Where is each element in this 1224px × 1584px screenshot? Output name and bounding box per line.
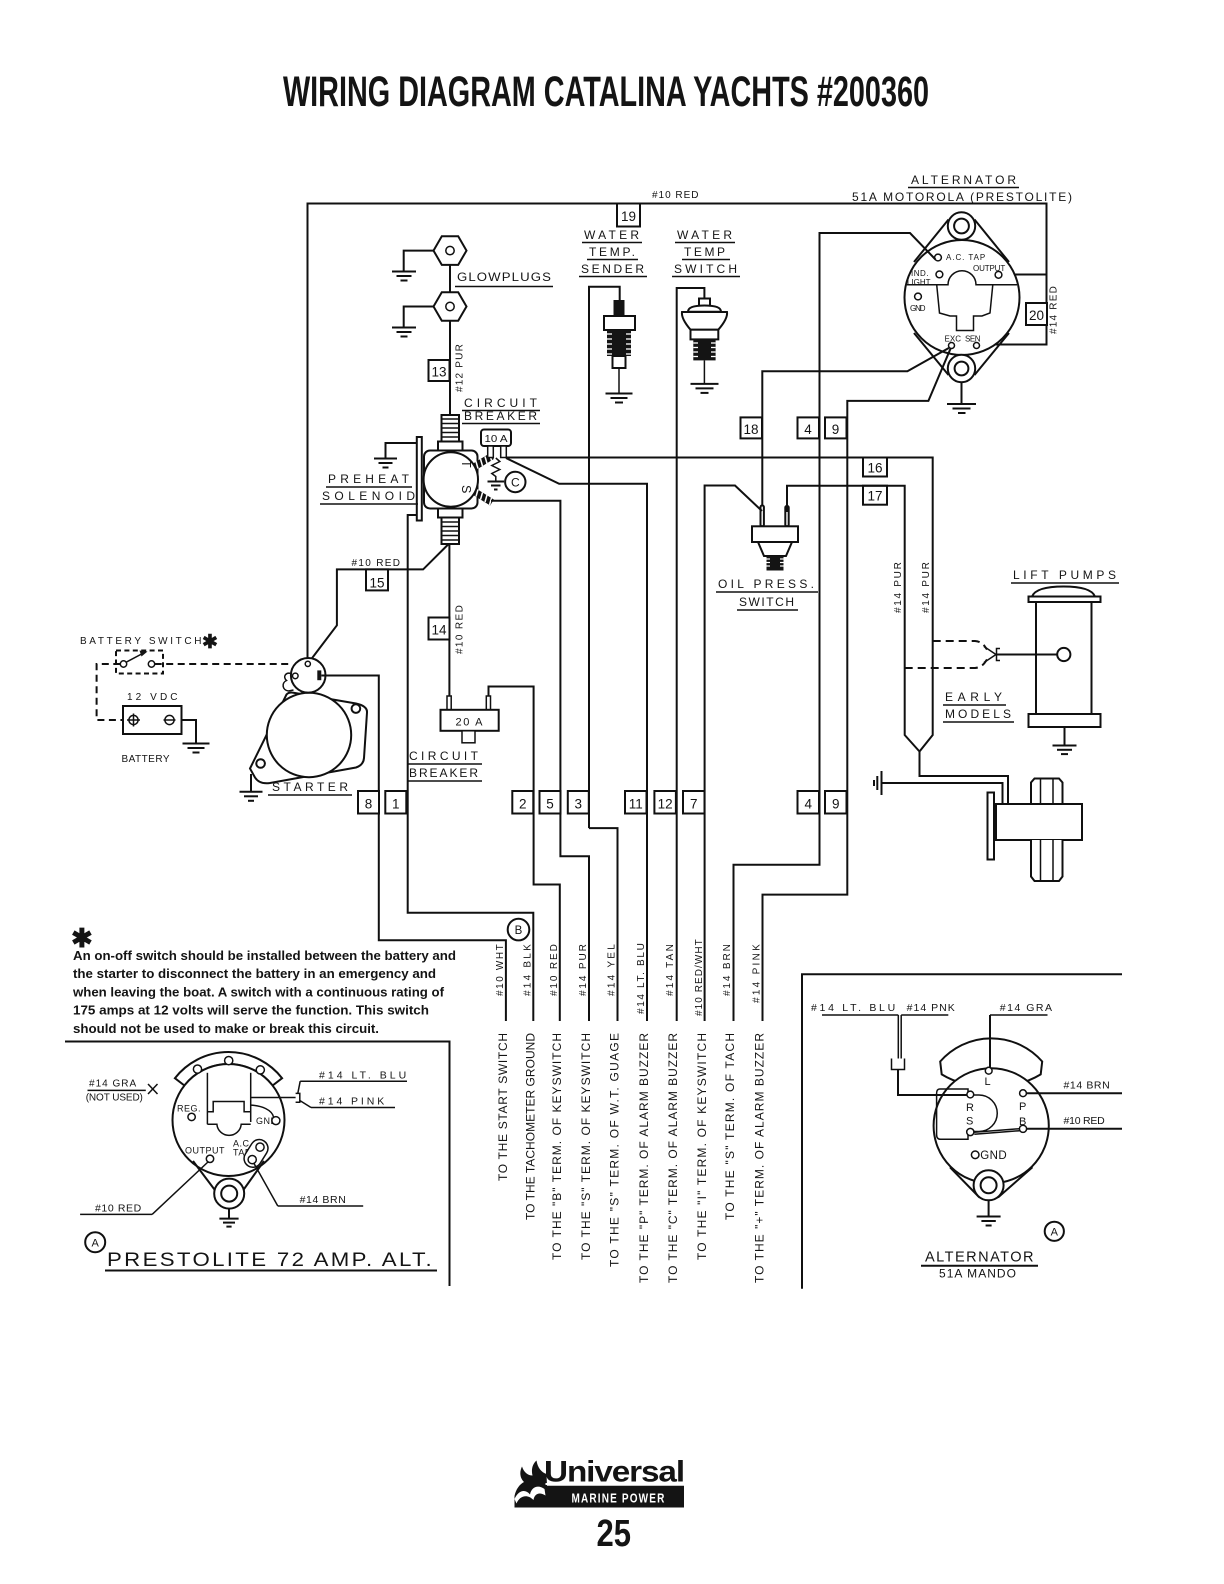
node 19	[617, 204, 640, 227]
svg-text:#14 BLK: #14 BLK	[523, 943, 534, 996]
node 8	[358, 791, 379, 814]
wire GP2 to ground	[404, 307, 434, 328]
X not used mark	[148, 1084, 158, 1094]
node 7	[683, 791, 705, 814]
svg-text:9: 9	[832, 422, 840, 437]
svg-text:#14 GRA: #14 GRA	[89, 1079, 137, 1090]
glowplug GP2	[434, 292, 467, 321]
wire bracket to PINK	[300, 1101, 311, 1108]
label ALTERNATOR (Motorola)	[908, 173, 1019, 188]
wire oil press right pin #14 PUR 17	[787, 486, 920, 752]
wire ground to fuel pump	[882, 783, 1003, 804]
svg-text:#10 RED: #10 RED	[1064, 1115, 1106, 1127]
svg-text:4: 4	[805, 797, 813, 812]
note text	[72, 948, 456, 1036]
svg-text:SWITCH: SWITCH	[739, 595, 795, 609]
water temp sender B2	[604, 300, 635, 394]
node 1	[385, 791, 406, 814]
svg-text:#10 RED: #10 RED	[549, 943, 560, 996]
svg-text:12 VDC: 12 VDC	[127, 692, 179, 703]
svg-text:TO THE "P" TERM. OF ALARM BUZZ: TO THE "P" TERM. OF ALARM BUZZER	[637, 1032, 651, 1283]
connector plug	[892, 1059, 905, 1070]
mando detail frame	[802, 974, 1122, 1289]
terminal S	[967, 1128, 974, 1135]
svg-text:A: A	[92, 1238, 100, 1250]
svg-text:#14 BRN: #14 BRN	[1064, 1080, 1111, 1092]
node B	[508, 919, 530, 941]
svg-text:#10 RED: #10 RED	[352, 558, 402, 569]
svg-text:LIGHT: LIGHT	[907, 278, 931, 287]
svg-text:TO THE "B" TERM. OF KEYSWITCH: TO THE "B" TERM. OF KEYSWITCH	[550, 1032, 564, 1260]
svg-text:#14 PUR: #14 PUR	[578, 943, 589, 996]
svg-text:9: 9	[832, 797, 840, 812]
svg-text:15: 15	[369, 576, 384, 591]
wire #10 RED top bus from battery frame to alternator output	[308, 204, 1047, 664]
label GLOWPLUGS	[455, 270, 553, 287]
alternator A (Prestolite 72A) body	[173, 1052, 285, 1176]
oil pressure switch S3	[752, 506, 798, 571]
wire early models dashed upper	[933, 641, 987, 650]
svg-text:#14 BRN: #14 BRN	[722, 943, 733, 996]
svg-text:TO THE "S" TERM. OF W.T. GUAGE: TO THE "S" TERM. OF W.T. GUAGE	[608, 1032, 622, 1267]
ground at GP2	[392, 328, 416, 337]
svg-text:2: 2	[519, 797, 527, 812]
label EARLY MODELS	[943, 690, 1014, 722]
svg-text:12: 12	[658, 797, 673, 812]
wire output stub	[1002, 274, 1047, 276]
svg-text:OIL PRESS.: OIL PRESS.	[718, 577, 815, 591]
label ALTERNATOR (mando)	[921, 1249, 1038, 1266]
label CIRCUIT BREAKER (10A)	[462, 396, 540, 424]
ground at K1 bracket	[386, 443, 417, 459]
svg-text:4: 4	[804, 422, 812, 437]
ground at R1	[488, 482, 505, 490]
svg-text:8: 8	[365, 797, 373, 812]
node 9 (bottom)	[825, 791, 847, 814]
label #14 GRA (mando)	[990, 1002, 1053, 1015]
circuit breaker CB1 10A	[481, 430, 511, 458]
svg-text:175 amps at 12 volts will serv: 175 amps at 12 volts will serve the func…	[73, 1003, 429, 1018]
wire #10 RED to output	[152, 1162, 208, 1215]
svg-text:#14 PINK: #14 PINK	[752, 943, 763, 1003]
svg-text:GND: GND	[910, 304, 926, 313]
label #14 LT. BLU (mando)	[811, 1002, 898, 1015]
svg-text:#10 RED: #10 RED	[95, 1203, 142, 1215]
label LIFT PUMPS	[1011, 568, 1119, 583]
svg-text:T: T	[459, 460, 473, 468]
label #10 RED (prestolite)	[80, 1203, 152, 1215]
wire EXC to alarm buzzer (#14 PINK)	[763, 349, 951, 1021]
preheat solenoid K1	[417, 437, 478, 521]
wire connector to pump terminal	[997, 654, 1057, 656]
svg-text:REG.: REG.	[177, 1104, 201, 1114]
svg-text:#14 LT. BLU: #14 LT. BLU	[636, 942, 647, 1014]
svg-text:13: 13	[431, 365, 446, 380]
svg-text:10 A: 10 A	[485, 434, 508, 445]
ground at GP1	[392, 272, 416, 281]
svg-text:TO THE "I" TERM. OF KEYSWITCH: TO THE "I" TERM. OF KEYSWITCH	[695, 1032, 709, 1260]
svg-text:✱: ✱	[202, 632, 218, 653]
svg-text:#14 BRN: #14 BRN	[300, 1194, 347, 1206]
wire water temp switch feed / #14 TAN drop	[677, 288, 705, 1021]
svg-text:19: 19	[621, 209, 636, 224]
svg-text:5: 5	[546, 797, 554, 812]
wire bracket to LT BLU	[298, 1081, 300, 1093]
wire regulator to GND terminal	[251, 1105, 274, 1117]
node 12	[654, 791, 676, 814]
prestolite detail frame	[65, 1042, 450, 1287]
node 17	[863, 486, 887, 505]
svg-text:WATER: WATER	[677, 228, 733, 242]
ground at battery	[183, 744, 210, 753]
terminal R	[967, 1091, 974, 1098]
wire water temp sender feed	[589, 287, 620, 828]
node 9 (top)	[825, 417, 847, 438]
terminal B	[1019, 1125, 1026, 1132]
node 11	[625, 791, 647, 814]
wire #10 RED 15 solenoid to starter	[309, 544, 448, 662]
wire battery + to switch (dashed)	[97, 664, 129, 720]
wire plug to R terminal	[898, 1070, 967, 1096]
svg-text:#14 GRA: #14 GRA	[1000, 1002, 1053, 1014]
svg-text:the starter to disconnect the: the starter to disconnect the battery in…	[73, 966, 436, 981]
svg-text:GND: GND	[980, 1150, 1007, 1162]
svg-text:#14 PUR: #14 PUR	[893, 561, 904, 613]
node 15	[366, 569, 388, 590]
svg-text:#10 RED/WHT: #10 RED/WHT	[694, 938, 705, 1016]
svg-text:TEMP: TEMP	[684, 245, 726, 259]
svg-text:TO THE "+" TERM. OF ALARM BUZZ: TO THE "+" TERM. OF ALARM BUZZER	[753, 1032, 767, 1283]
terminal thread top of K1	[442, 415, 460, 442]
alternator G1 body	[905, 212, 1020, 382]
svg-text:TO THE "S" TERM. OF TACH: TO THE "S" TERM. OF TACH	[723, 1032, 737, 1220]
wire GP1 to ground	[404, 251, 434, 272]
wire oil press left pin to keyswitch I (#10 RED/WHT)	[705, 486, 762, 1022]
connector to lift pump	[984, 647, 1000, 663]
clip at starter solenoid input	[283, 673, 293, 691]
node 20	[1026, 303, 1047, 325]
label WATER TEMP SWITCH	[672, 228, 740, 277]
svg-text:C: C	[511, 476, 520, 490]
svg-text:#14 PUR: #14 PUR	[921, 561, 932, 613]
wire switch to starter solenoid (dashed)	[155, 663, 291, 665]
terminal S screw of K1	[475, 490, 492, 506]
battery switch SW1	[116, 651, 163, 674]
wire battery - to ground	[182, 720, 197, 744]
svg-text:TEMP.: TEMP.	[589, 245, 636, 259]
label PRESTOLITE 72 AMP. ALT.	[105, 1250, 437, 1271]
prestolite bottom ear	[193, 1161, 264, 1209]
svg-text:WATER: WATER	[584, 228, 640, 242]
svg-text:BREAKER: BREAKER	[409, 766, 479, 780]
lift pump P1	[1029, 587, 1101, 746]
label WATER TEMP. SENDER	[579, 228, 647, 277]
svg-text:R: R	[966, 1102, 974, 1114]
node A (prestolite)	[85, 1232, 105, 1252]
svg-text:SEN: SEN	[965, 335, 981, 344]
svg-text:7: 7	[690, 797, 698, 812]
wire #14 GRA to L terminal	[989, 1015, 991, 1067]
svg-text:11: 11	[629, 797, 643, 812]
terminal thread bottom of K1	[442, 518, 460, 545]
svg-text:18: 18	[743, 422, 758, 437]
svg-text:#10 RED: #10 RED	[652, 190, 700, 201]
node A (mando)	[1045, 1222, 1064, 1241]
label #14 PINK (prestolite)	[311, 1096, 395, 1108]
node 4 (bottom)	[798, 791, 820, 814]
svg-text:3: 3	[575, 797, 583, 812]
wire P to #14 BRN	[1026, 1092, 1122, 1094]
svg-text:14: 14	[431, 623, 447, 638]
svg-text:EXC: EXC	[945, 335, 962, 344]
svg-text:MARINE POWER: MARINE POWER	[572, 1491, 666, 1506]
wire S to B	[974, 1129, 1020, 1135]
fuel pump P2	[988, 779, 1083, 882]
wire GP1-GP2	[449, 265, 451, 292]
svg-text:A: A	[1051, 1227, 1059, 1239]
battery BT1	[123, 706, 182, 734]
svg-text:#14 TAN: #14 TAN	[665, 943, 676, 996]
svg-text:An on-off switch should be ins: An on-off switch should be installed bet…	[73, 948, 456, 963]
svg-text:ALTERNATOR: ALTERNATOR	[925, 1249, 1035, 1266]
wire CB1 to fuel pump bus	[506, 458, 1008, 804]
terminal A.C. TAP	[935, 254, 942, 261]
svg-text:#14 PNK: #14 PNK	[907, 1002, 956, 1014]
wire #12 PUR GP2 to preheat solenoid	[449, 321, 451, 415]
Universal Marine Power logo	[515, 1456, 685, 1508]
terminal L	[985, 1067, 992, 1074]
svg-text:BATTERY: BATTERY	[122, 754, 171, 765]
wire bracket to tachometer ground	[408, 515, 534, 1021]
label #14 GRA (NOT USED)	[86, 1079, 146, 1104]
terminal GND (mando)	[971, 1151, 979, 1159]
svg-text:#12 PUR: #12 PUR	[455, 343, 466, 392]
wire starter to start switch (#10 WHT)	[321, 676, 506, 1022]
svg-text:#14 LT. BLU: #14 LT. BLU	[811, 1002, 896, 1014]
node 2	[512, 791, 533, 814]
ground at prestolite	[228, 1209, 230, 1219]
svg-text:#14 LT. BLU: #14 LT. BLU	[319, 1070, 407, 1082]
starter solenoid	[291, 658, 326, 693]
svg-text:BATTERY SWITCH: BATTERY SWITCH	[80, 636, 203, 647]
svg-text:ALTERNATOR: ALTERNATOR	[911, 173, 1017, 187]
wire early models dashed lower	[905, 660, 987, 669]
water temp switch S2	[682, 299, 727, 384]
node 18	[741, 417, 763, 438]
mando bottom ear	[974, 1170, 1004, 1200]
svg-text:51A MOTOROLA (PRESTOLITE): 51A MOTOROLA (PRESTOLITE)	[852, 190, 1073, 204]
svg-text:#10 WHT: #10 WHT	[495, 943, 506, 996]
svg-text:B: B	[515, 925, 523, 937]
node 4 (top)	[798, 417, 820, 438]
svg-text:16: 16	[867, 461, 882, 476]
terminal IND. LIGHT	[936, 271, 943, 278]
node 5	[540, 791, 561, 814]
node 3	[568, 791, 589, 814]
ground at switch	[691, 384, 719, 393]
label #14 LT. BLU (prestolite)	[300, 1070, 407, 1082]
svg-text:B: B	[1019, 1116, 1026, 1128]
terminal GND	[915, 293, 922, 300]
terminals EXC SEN	[949, 343, 955, 349]
connector bracket	[296, 1093, 300, 1102]
glowplug GP1	[434, 236, 467, 265]
svg-text:GLOWPLUGS: GLOWPLUGS	[457, 270, 552, 284]
svg-text:1: 1	[392, 797, 400, 812]
svg-text:TO THE "C" TERM. OF ALARM BUZZ: TO THE "C" TERM. OF ALARM BUZZER	[666, 1032, 680, 1283]
svg-text:S: S	[966, 1116, 973, 1128]
ground at mando	[988, 1200, 990, 1216]
terminal T screw of K1	[475, 454, 492, 469]
svg-text:#14 PINK: #14 PINK	[319, 1096, 385, 1108]
svg-text:IND.: IND.	[911, 269, 929, 278]
wire pair to connector	[898, 1015, 901, 1062]
svg-text:WIRING DIAGRAM CATALINA YACHTS: WIRING DIAGRAM CATALINA YACHTS #200360	[283, 68, 929, 116]
svg-text:L: L	[985, 1076, 991, 1088]
wire sender jog to W.T. guage	[589, 828, 618, 1021]
svg-text:#10 RED: #10 RED	[455, 604, 466, 654]
svg-text:P: P	[1019, 1101, 1026, 1113]
svg-text:#14 RED: #14 RED	[1049, 285, 1060, 334]
node C	[505, 472, 525, 492]
svg-text:17: 17	[867, 489, 882, 504]
svg-text:TO THE "S" TERM. OF KEYSWITCH: TO THE "S" TERM. OF KEYSWITCH	[579, 1032, 593, 1260]
svg-text:TO THE TACHOMETER GROUND: TO THE TACHOMETER GROUND	[523, 1032, 537, 1220]
svg-text:should not be used to make or: should not be used to make or break this…	[73, 1021, 379, 1036]
wire bracket to regulator	[251, 1097, 296, 1099]
svg-text:TO THE START SWITCH: TO THE START SWITCH	[496, 1032, 510, 1181]
circuit breaker CB2 20A	[441, 696, 499, 743]
terminal OUTPUT	[995, 271, 1002, 278]
svg-text:51A MANDO: 51A MANDO	[939, 1269, 1017, 1281]
svg-text:PREHEAT: PREHEAT	[328, 472, 410, 486]
label STARTER	[268, 780, 352, 795]
wire EXC to oil press switch	[762, 348, 949, 513]
svg-text:#14 YEL: #14 YEL	[607, 943, 618, 996]
wire S terminal to keyswitch drop	[491, 501, 589, 1021]
label PREHEAT SOLENOID	[320, 472, 418, 504]
svg-text:OUTPUT: OUTPUT	[973, 264, 1006, 273]
ground at starter	[250, 774, 252, 792]
svg-text:20: 20	[1029, 308, 1044, 323]
node 16	[863, 458, 887, 477]
ground at sender	[606, 394, 633, 403]
label #14 BRN (prestolite)	[278, 1194, 363, 1206]
wire S-term diagonal to node 11 drop	[506, 458, 647, 1021]
svg-text:OUTPUT: OUTPUT	[185, 1146, 225, 1156]
ground at lift pump	[1053, 746, 1077, 755]
svg-text:when leaving the boat. A switc: when leaving the boat. A switch with a c…	[72, 984, 445, 999]
svg-text:25: 25	[597, 1513, 632, 1555]
label #14 PNK (mando)	[901, 1002, 955, 1015]
label CIRCUIT BREAKER (20A)	[407, 749, 482, 781]
node 14	[429, 618, 450, 640]
ground at fuel pump line	[874, 771, 882, 795]
svg-text:20 A: 20 A	[456, 717, 484, 729]
label OIL PRESS. SWITCH	[716, 577, 818, 610]
node 13	[429, 360, 450, 381]
svg-text:PRESTOLITE 72 AMP. ALT.: PRESTOLITE 72 AMP. ALT.	[107, 1250, 434, 1271]
starter M1	[250, 693, 367, 784]
svg-text:S: S	[459, 485, 473, 493]
wire A.C. TAP to tach (#14 BRN)	[734, 233, 936, 1021]
svg-text:(NOT USED): (NOT USED)	[86, 1093, 144, 1104]
resistor R1 to ground	[492, 458, 500, 482]
svg-text:A.C. TAP: A.C. TAP	[946, 253, 986, 262]
ground below alternator G1	[961, 382, 963, 404]
terminal P	[1020, 1090, 1027, 1097]
wire B to #10 RED	[1027, 1128, 1122, 1130]
svg-text:EARLY: EARLY	[945, 690, 1003, 704]
wire #10 RED 14 solenoid to 20A breaker	[448, 544, 450, 696]
alternator A2 (Mando 51A) body	[934, 1038, 1049, 1197]
wire 20A to keyswitch B (#10 RED)	[489, 687, 560, 1022]
wire #14 BRN to A.C tap	[254, 1164, 278, 1207]
